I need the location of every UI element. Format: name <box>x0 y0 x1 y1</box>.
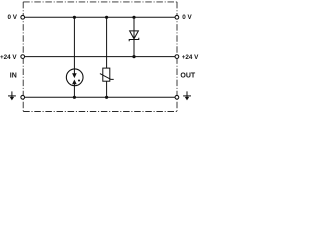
wire varistor branch <box>106 17 108 97</box>
svg-text:+24 V: +24 V <box>182 54 199 61</box>
terminal left 0V <box>21 15 25 19</box>
svg-text:OUT: OUT <box>180 72 196 79</box>
wire suppressor diode branch <box>133 17 135 56</box>
ground symbol right <box>183 91 191 100</box>
ground symbol left <box>8 91 16 100</box>
terminal right earth <box>175 95 179 99</box>
terminal right 0V <box>175 15 179 19</box>
enclosure boundary right (dash-dot) <box>176 2 178 112</box>
gas discharge tube F1 <box>66 69 83 86</box>
wire gas discharge tube branch <box>73 17 75 97</box>
suppressor diode V1 <box>129 31 139 41</box>
junction earth / GDT branch <box>73 96 76 99</box>
enclosure boundary bottom (dash-dot) <box>23 111 177 113</box>
junction 0V / diode branch <box>132 16 135 19</box>
varistor R1 <box>100 68 114 81</box>
junction +24V / diode branch <box>132 55 135 58</box>
enclosure boundary left (dash-dot) <box>22 2 24 112</box>
terminal left +24V <box>21 55 25 59</box>
junction earth / varistor branch <box>105 96 108 99</box>
wire +24V rail <box>23 56 177 58</box>
terminal right +24V <box>175 55 179 59</box>
terminal left earth <box>21 95 25 99</box>
wire earth rail <box>23 96 177 98</box>
svg-text:0 V: 0 V <box>182 14 192 21</box>
enclosure boundary top (dash-dot) <box>23 1 177 3</box>
wire 0V rail <box>23 16 177 18</box>
svg-text:IN: IN <box>10 72 17 79</box>
junction 0V / GDT branch <box>73 16 76 19</box>
svg-text:+24 V: +24 V <box>0 54 17 61</box>
junction 0V / varistor branch <box>105 16 108 19</box>
svg-text:0 V: 0 V <box>8 14 18 21</box>
